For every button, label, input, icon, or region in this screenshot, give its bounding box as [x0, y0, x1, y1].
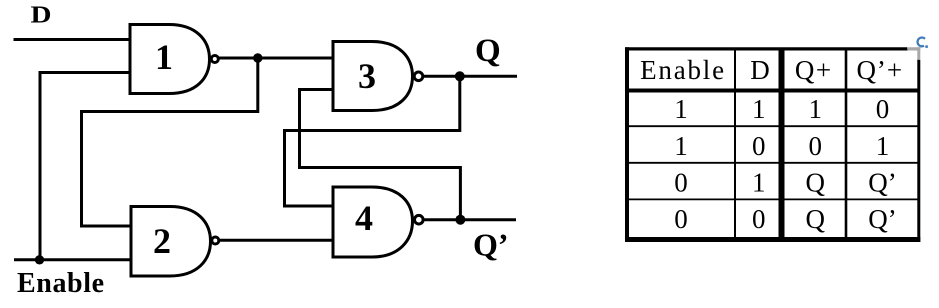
wire gate 3 output Q: [423, 75, 517, 78]
wire gate 1 output feedback to gate 2 pin 1: [82, 58, 258, 226]
svg-text:1: 1: [808, 94, 822, 124]
junction Q': [455, 215, 465, 225]
wire Enable input to gate 2 pin 2: [14, 258, 131, 261]
svg-text:Q’: Q’: [868, 167, 897, 197]
svg-text:1: 1: [752, 167, 766, 197]
svg-text:4: 4: [355, 198, 373, 238]
svg-text:1: 1: [876, 131, 890, 161]
nand gate U4: [333, 187, 423, 257]
svg-text:Q+: Q+: [795, 55, 833, 85]
cursor artifact blue mark: [918, 38, 925, 47]
cursor artifact halo: [907, 34, 933, 60]
svg-text:Q’: Q’: [868, 204, 897, 234]
svg-text:Enable: Enable: [17, 268, 105, 299]
nand gate U3: [333, 42, 423, 111]
junction gate 1 output: [253, 53, 262, 62]
svg-text:0: 0: [808, 131, 822, 161]
wire Q feedback to gate 4 pin 1: [285, 76, 460, 206]
wire Enable riser to gate 1 pin 2: [40, 73, 130, 261]
svg-text:Q: Q: [475, 33, 501, 69]
svg-text:0: 0: [876, 94, 890, 124]
svg-text:Q’+: Q’+: [856, 55, 903, 85]
svg-text:D: D: [750, 55, 770, 85]
svg-text:0: 0: [752, 131, 766, 161]
wire gate 1 output to gate 3 pin 1: [219, 57, 333, 60]
junction Q: [455, 71, 465, 81]
svg-text:0: 0: [674, 204, 688, 234]
nand gate U1: [130, 25, 218, 94]
svg-text:1: 1: [674, 131, 688, 161]
svg-text:1: 1: [752, 94, 766, 124]
svg-text:0: 0: [752, 204, 766, 234]
wire gate 4 output Q': [423, 218, 516, 221]
svg-text:1: 1: [155, 37, 173, 77]
svg-text:0: 0: [674, 167, 688, 197]
truth table: [625, 47, 920, 242]
wire Q' feedback to gate 3 pin 2: [300, 90, 461, 220]
svg-text:Q’: Q’: [473, 227, 509, 263]
svg-text:1: 1: [674, 94, 688, 124]
svg-text:2: 2: [153, 221, 171, 261]
svg-text:D: D: [31, 3, 52, 29]
svg-text:3: 3: [358, 56, 376, 96]
nand gate U2: [131, 207, 219, 277]
svg-text:Enable: Enable: [640, 55, 726, 85]
svg-text:Q: Q: [805, 204, 825, 234]
junction Enable: [35, 255, 44, 264]
wire gate 2 output to gate 4 pin 2: [220, 239, 333, 242]
wire D input to gate 1 pin 1: [14, 38, 131, 41]
svg-text:Q: Q: [805, 167, 825, 197]
